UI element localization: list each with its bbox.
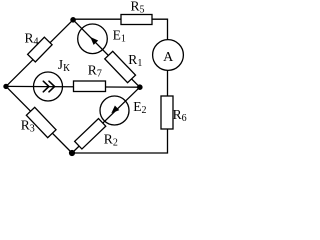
svg-text:A: A: [163, 50, 174, 65]
